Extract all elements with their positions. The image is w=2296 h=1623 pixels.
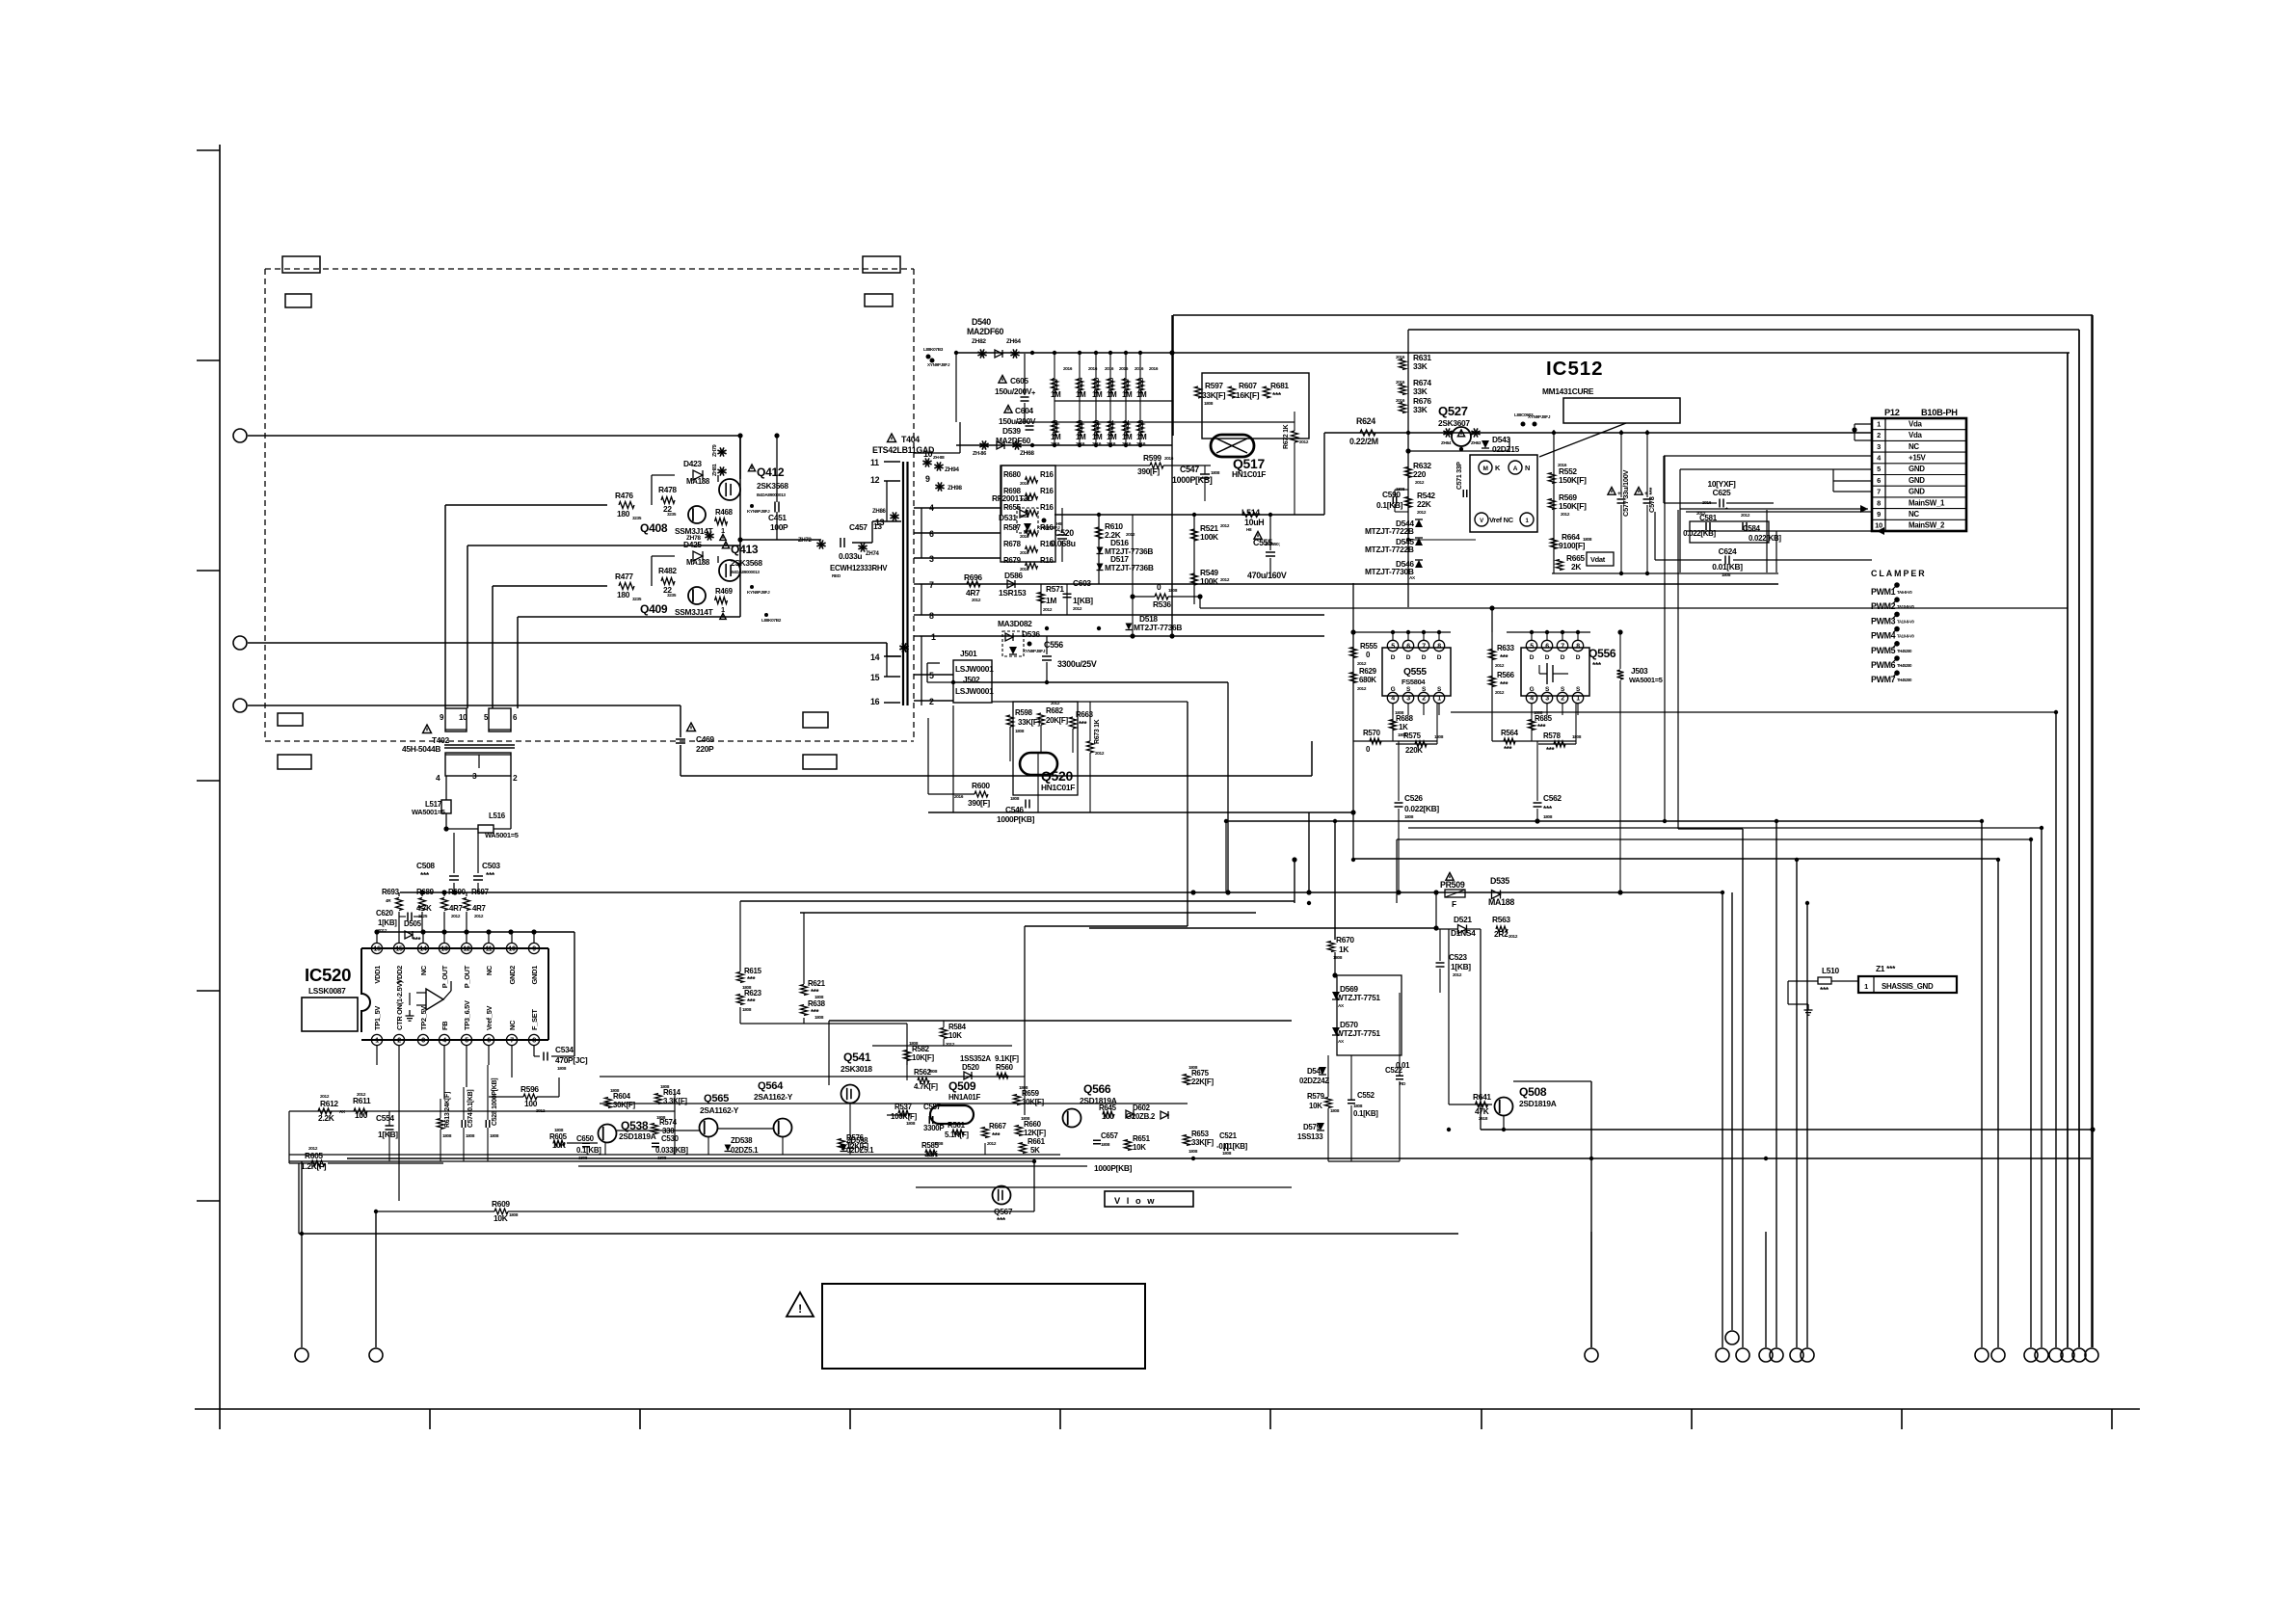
svg-text:1[KB]: 1[KB] — [1073, 596, 1093, 605]
svg-text:4: 4 — [442, 1038, 446, 1045]
svg-text:R482: R482 — [658, 566, 677, 575]
svg-text:1[KB]: 1[KB] — [378, 918, 397, 927]
svg-text:R629: R629 — [1359, 667, 1377, 676]
svg-text:C571 33P: C571 33P — [1456, 462, 1463, 490]
svg-text:C526: C526 — [1404, 793, 1423, 803]
svg-text:2012: 2012 — [1508, 934, 1518, 939]
svg-text:R680: R680 — [1003, 470, 1022, 479]
svg-text:0.01: 0.01 — [1396, 1061, 1410, 1070]
svg-text:1808: 1808 — [934, 1141, 944, 1146]
svg-text:MainSW_1: MainSW_1 — [1909, 498, 1945, 507]
svg-text:R587: R587 — [1003, 523, 1022, 532]
svg-text:C625: C625 — [1713, 488, 1731, 497]
svg-text:G: G — [1391, 686, 1396, 693]
svg-text:3300P: 3300P — [923, 1124, 944, 1132]
svg-text:ECWH12333RHV: ECWH12333RHV — [830, 564, 888, 572]
svg-text:1M: 1M — [1107, 433, 1117, 441]
svg-text:2618: 2618 — [1479, 1116, 1488, 1121]
svg-text:2016: 2016 — [1020, 481, 1029, 486]
svg-text:B4DA89000013: B4DA89000013 — [731, 570, 760, 574]
svg-text:6: 6 — [487, 1038, 491, 1045]
svg-text:1808: 1808 — [1572, 734, 1582, 739]
svg-text:***: *** — [1272, 390, 1282, 400]
svg-text:1M: 1M — [1122, 433, 1133, 441]
svg-text:1808: 1808 — [656, 1115, 666, 1120]
svg-text:1808: 1808 — [909, 1041, 919, 1046]
svg-text:R693: R693 — [382, 888, 400, 896]
svg-text:1808: 1808 — [466, 1133, 475, 1138]
svg-text:12: 12 — [463, 946, 470, 953]
svg-text:R623: R623 — [744, 989, 762, 998]
svg-text:1808: 1808 — [1404, 814, 1414, 819]
svg-text:R667: R667 — [989, 1122, 1007, 1131]
svg-text:PWM2: PWM2 — [1871, 601, 1896, 611]
svg-text:2012: 2012 — [1095, 751, 1105, 756]
svg-text:-0.01[KB]: -0.01[KB] — [1216, 1142, 1248, 1151]
svg-text:1K: 1K — [1339, 945, 1348, 954]
svg-text:13: 13 — [875, 518, 885, 527]
svg-text:R679: R679 — [1003, 556, 1022, 565]
svg-text:2016: 2016 — [1063, 366, 1073, 371]
svg-text:D505: D505 — [404, 919, 422, 928]
svg-text:2012: 2012 — [1417, 510, 1427, 515]
svg-text:11: 11 — [870, 458, 879, 467]
svg-text:2012: 2012 — [1220, 577, 1230, 582]
svg-text:PWM3: PWM3 — [1871, 616, 1896, 625]
svg-text:3: 3 — [1406, 696, 1410, 703]
svg-text:1808: 1808 — [1434, 734, 1444, 739]
svg-text:V l o w: V l o w — [1114, 1196, 1156, 1206]
svg-text:C534: C534 — [555, 1045, 574, 1054]
svg-text:R685: R685 — [1535, 714, 1553, 723]
svg-text:R478: R478 — [658, 485, 677, 494]
svg-text:0.1[KB]: 0.1[KB] — [1376, 500, 1403, 510]
svg-text:0.22/2M: 0.22/2M — [1349, 437, 1378, 446]
svg-text:9: 9 — [925, 474, 930, 484]
svg-text:100K: 100K — [1200, 532, 1218, 542]
svg-text:***: *** — [747, 998, 757, 1006]
svg-text:R469: R469 — [715, 587, 734, 596]
svg-text:D586: D586 — [1004, 571, 1023, 580]
svg-text:16K[F]: 16K[F] — [1236, 390, 1260, 400]
svg-text:3: 3 — [1877, 442, 1881, 451]
svg-text:9.1K[F]: 9.1K[F] — [995, 1054, 1019, 1063]
svg-text:C574 0.1[KB]: C574 0.1[KB] — [467, 1090, 474, 1128]
svg-text:TA10-8-V0: TA10-8-V0 — [1897, 619, 1914, 624]
svg-text:TH45280: TH45280 — [1897, 663, 1912, 668]
svg-text:Vda: Vda — [1909, 431, 1923, 439]
svg-text:ZH78: ZH78 — [686, 535, 701, 542]
svg-text:220: 220 — [1413, 469, 1427, 479]
svg-text:10K: 10K — [1133, 1143, 1146, 1152]
svg-text:33K: 33K — [1413, 386, 1428, 396]
svg-text:2016: 2016 — [1135, 366, 1144, 371]
svg-text:R638: R638 — [808, 999, 826, 1008]
svg-text:4: 4 — [1530, 696, 1534, 703]
svg-text:1[KB]: 1[KB] — [378, 1130, 398, 1139]
svg-text:4: 4 — [436, 773, 441, 783]
svg-text:***: *** — [992, 1131, 1001, 1140]
svg-text:1808: 1808 — [1583, 537, 1592, 542]
svg-text:1: 1 — [1877, 419, 1881, 428]
svg-text:Q555: Q555 — [1403, 667, 1427, 678]
svg-text:1M: 1M — [1051, 390, 1061, 399]
svg-text:PWM6: PWM6 — [1871, 660, 1896, 670]
svg-text:3: 3 — [1545, 696, 1549, 703]
svg-text:2012: 2012 — [1299, 439, 1309, 444]
svg-text:2012: 2012 — [1051, 701, 1060, 705]
svg-text:B4DA89000013: B4DA89000013 — [757, 492, 786, 497]
svg-text:1M: 1M — [1136, 390, 1147, 399]
svg-text:1: 1 — [1437, 696, 1441, 703]
svg-text:2012: 2012 — [474, 914, 484, 918]
svg-text:2016: 2016 — [1119, 366, 1129, 371]
svg-text:NC: NC — [1909, 442, 1919, 451]
svg-text:2SK3568: 2SK3568 — [757, 481, 788, 491]
svg-text:Vda: Vda — [1909, 419, 1923, 428]
svg-text:WA5001=5: WA5001=5 — [1629, 676, 1663, 684]
svg-text:***: *** — [997, 1215, 1006, 1225]
svg-text:XYN9PJ8FJ: XYN9PJ8FJ — [1528, 414, 1551, 419]
svg-text:Q409: Q409 — [640, 602, 668, 616]
svg-text:R571: R571 — [1046, 584, 1064, 594]
svg-text:Q412: Q412 — [757, 466, 785, 479]
svg-text:C604: C604 — [1015, 406, 1033, 415]
svg-text:Q520: Q520 — [1041, 768, 1073, 784]
svg-text:MA188: MA188 — [686, 558, 710, 567]
svg-text:2016: 2016 — [954, 794, 964, 799]
svg-text:V: V — [1480, 519, 1483, 524]
svg-text:R16: R16 — [1040, 487, 1055, 495]
svg-text:R607: R607 — [1239, 381, 1257, 390]
svg-text:R611: R611 — [353, 1096, 371, 1105]
svg-text:CTR ON(1-2.5V): CTR ON(1-2.5V) — [395, 980, 404, 1030]
svg-text:1808: 1808 — [1543, 814, 1553, 819]
svg-text:C520: C520 — [1055, 528, 1074, 538]
svg-text:RED: RED — [832, 573, 841, 578]
svg-text:47K: 47K — [1475, 1106, 1489, 1116]
svg-text:MA2DF60: MA2DF60 — [967, 327, 1004, 336]
svg-text:MT2JT-7736B: MT2JT-7736B — [1134, 623, 1182, 632]
svg-text:1808: 1808 — [509, 1212, 519, 1217]
svg-text:NC: NC — [1909, 510, 1919, 519]
svg-text:2012: 2012 — [1561, 512, 1570, 517]
svg-text:D: D — [1437, 654, 1442, 661]
svg-text:C620: C620 — [376, 909, 394, 918]
svg-text:2012: 2012 — [987, 1141, 997, 1146]
svg-text:02DZ5.1: 02DZ5.1 — [731, 1146, 759, 1155]
svg-text:NC: NC — [508, 1020, 517, 1030]
svg-text:R688: R688 — [1396, 714, 1414, 723]
svg-text:ZH74: ZH74 — [866, 551, 879, 557]
svg-text:8: 8 — [1576, 644, 1580, 651]
svg-text:2: 2 — [397, 1038, 401, 1045]
svg-text:F_SET: F_SET — [530, 1009, 539, 1030]
svg-text:B10B-PH: B10B-PH — [1921, 408, 1958, 417]
svg-text:D521: D521 — [1454, 915, 1472, 924]
svg-text:1808: 1808 — [1188, 1065, 1198, 1070]
svg-text:1M: 1M — [1092, 390, 1103, 399]
svg-text:1M: 1M — [1107, 390, 1117, 399]
svg-text:0.022[KB]: 0.022[KB] — [1404, 804, 1439, 813]
svg-text:R599: R599 — [1143, 453, 1161, 463]
svg-text:IC520: IC520 — [305, 965, 351, 985]
svg-text:3235: 3235 — [632, 516, 642, 520]
svg-text:180: 180 — [617, 509, 630, 519]
svg-text:ZH72: ZH72 — [798, 538, 812, 544]
svg-text:KYN9PJ8FJ: KYN9PJ8FJ — [747, 590, 770, 595]
svg-text:10: 10 — [508, 946, 516, 953]
svg-text:R675: R675 — [1191, 1069, 1210, 1078]
svg-text:9100[F]: 9100[F] — [1559, 541, 1586, 550]
svg-text:1808: 1808 — [490, 1133, 499, 1138]
svg-text:2016: 2016 — [1149, 366, 1159, 371]
svg-text:R563: R563 — [1492, 915, 1510, 924]
svg-text:1M: 1M — [1051, 433, 1061, 441]
svg-text:Q565: Q565 — [704, 1093, 729, 1104]
svg-text:C503: C503 — [482, 861, 500, 870]
svg-text:220K: 220K — [1405, 746, 1423, 755]
svg-text:PWM7: PWM7 — [1871, 675, 1896, 684]
svg-text:R561: R561 — [948, 1121, 966, 1130]
svg-text:D: D — [1422, 654, 1427, 661]
svg-text:Q413: Q413 — [731, 543, 759, 556]
svg-text:2SA1162-Y: 2SA1162-Y — [754, 1092, 793, 1102]
svg-text:GND: GND — [1909, 476, 1925, 485]
svg-text:HN1C01F: HN1C01F — [1041, 783, 1075, 792]
svg-text:TP1_5V: TP1_5V — [373, 1006, 382, 1030]
svg-text:TP3_6.5V: TP3_6.5V — [463, 1000, 471, 1030]
svg-text:SHASSIS_GND: SHASSIS_GND — [1882, 982, 1934, 991]
svg-text:11: 11 — [486, 946, 493, 953]
svg-text:ZH82: ZH82 — [972, 338, 986, 345]
svg-text:5: 5 — [1530, 644, 1534, 651]
svg-text:J503: J503 — [1631, 666, 1648, 676]
svg-text:2SK3607: 2SK3607 — [1438, 418, 1470, 428]
svg-text:2012: 2012 — [1073, 606, 1082, 611]
svg-text:R564: R564 — [1501, 729, 1519, 737]
svg-text:ZH64: ZH64 — [1006, 338, 1021, 345]
svg-text:***: *** — [1543, 804, 1553, 813]
svg-text:16: 16 — [870, 697, 880, 706]
svg-text:10uH: 10uH — [1244, 518, 1264, 527]
svg-text:2012: 2012 — [1220, 523, 1230, 528]
svg-text:R670: R670 — [1336, 935, 1354, 945]
svg-text:Q564: Q564 — [758, 1080, 784, 1092]
svg-text:10K: 10K — [1309, 1102, 1322, 1110]
svg-text:4: 4 — [1391, 696, 1395, 703]
svg-text:***: *** — [1500, 680, 1509, 689]
svg-text:Q541: Q541 — [843, 1051, 871, 1064]
svg-text:2SD1819A: 2SD1819A — [1519, 1099, 1557, 1108]
svg-text:2012: 2012 — [451, 914, 461, 918]
svg-text:10K: 10K — [494, 1213, 508, 1223]
svg-text:3: 3 — [421, 1038, 425, 1045]
svg-text:RF2001T3D: RF2001T3D — [992, 493, 1033, 503]
svg-text:220P: 220P — [696, 744, 714, 754]
svg-text:PWM5: PWM5 — [1871, 646, 1896, 655]
svg-text:ZH81: ZH81 — [712, 464, 718, 476]
svg-text:12K[F]: 12K[F] — [1024, 1129, 1046, 1137]
svg-text:0.022[KB]: 0.022[KB] — [1683, 529, 1716, 538]
svg-text:ZH68: ZH68 — [1020, 450, 1034, 457]
svg-text:1808: 1808 — [1101, 1142, 1110, 1147]
svg-text:P12: P12 — [1884, 408, 1900, 417]
svg-text:R576: R576 — [846, 1133, 865, 1142]
svg-text:C650: C650 — [576, 1134, 595, 1143]
svg-text:R663: R663 — [1076, 710, 1094, 719]
svg-text:Q408: Q408 — [640, 521, 668, 535]
svg-text:HN1A01F: HN1A01F — [948, 1093, 981, 1102]
svg-text:R600: R600 — [972, 781, 990, 790]
svg-text:1SS133: 1SS133 — [1297, 1132, 1323, 1141]
svg-text:1000P[KB]: 1000P[KB] — [1172, 475, 1213, 485]
svg-text:***: *** — [1537, 723, 1547, 732]
svg-text:D: D — [1530, 654, 1535, 661]
svg-text:02DZ15: 02DZ15 — [1492, 444, 1520, 454]
svg-text:10K[F]: 10K[F] — [912, 1053, 934, 1062]
svg-text:1SS352A: 1SS352A — [960, 1054, 991, 1063]
svg-text:7: 7 — [1561, 644, 1564, 651]
svg-text:MA188: MA188 — [686, 477, 710, 486]
svg-text:L516: L516 — [489, 811, 506, 820]
svg-text:***: *** — [747, 975, 757, 984]
svg-text:3235: 3235 — [667, 512, 677, 517]
svg-text:1: 1 — [931, 632, 936, 642]
svg-text:2012: 2012 — [1357, 661, 1367, 666]
svg-text:1: 1 — [375, 1038, 379, 1045]
svg-text:PR509: PR509 — [1440, 880, 1465, 890]
svg-text:KYN9PJ8FJ: KYN9PJ8FJ — [747, 509, 770, 514]
svg-text:GND: GND — [1909, 465, 1925, 473]
svg-text:R621: R621 — [808, 979, 826, 988]
svg-text:T404: T404 — [901, 435, 920, 444]
svg-text:Vref NC: Vref NC — [1489, 516, 1514, 524]
svg-text:R653: R653 — [1191, 1130, 1210, 1138]
svg-text:3300u/25V: 3300u/25V — [1057, 659, 1097, 669]
svg-text:1808: 1808 — [1222, 1151, 1232, 1156]
svg-text:0.1[KB]: 0.1[KB] — [576, 1146, 601, 1155]
svg-text:0.033[KB]: 0.033[KB] — [655, 1146, 688, 1155]
svg-text:2: 2 — [929, 697, 934, 706]
svg-text:VDD1: VDD1 — [373, 966, 382, 984]
svg-text:2K: 2K — [1571, 562, 1581, 572]
svg-text:180: 180 — [617, 590, 630, 599]
svg-text:4R: 4R — [386, 898, 391, 903]
svg-text:R615: R615 — [744, 967, 762, 975]
svg-text:***: *** — [1546, 746, 1556, 755]
svg-text:1808: 1808 — [554, 1128, 564, 1132]
svg-text:C554: C554 — [376, 1113, 394, 1123]
svg-text:R560: R560 — [996, 1063, 1014, 1072]
svg-text:2016: 2016 — [1020, 534, 1029, 539]
svg-text:10: 10 — [1875, 521, 1882, 530]
svg-text:NC: NC — [485, 965, 494, 975]
svg-text:WTZJT-7751: WTZJT-7751 — [1336, 993, 1380, 1002]
svg-text:2012: 2012 — [1495, 663, 1505, 668]
svg-text:7: 7 — [1877, 488, 1881, 496]
svg-text:3: 3 — [929, 554, 934, 564]
svg-text:PWM1: PWM1 — [1871, 587, 1896, 597]
svg-text:16: 16 — [373, 946, 381, 953]
svg-text:R604: R604 — [613, 1092, 631, 1101]
svg-text:D536: D536 — [1022, 629, 1040, 639]
svg-text:1K: 1K — [1399, 723, 1408, 732]
svg-text:7: 7 — [1422, 644, 1426, 651]
svg-text:ZH-88: ZH-88 — [933, 455, 945, 460]
svg-text:1808: 1808 — [928, 1069, 938, 1074]
svg-text:D: D — [1561, 654, 1565, 661]
svg-text:9: 9 — [1877, 510, 1881, 519]
svg-text:1808: 1808 — [1019, 1085, 1028, 1090]
svg-text:ZH86: ZH86 — [872, 509, 886, 515]
svg-text:ZH79: ZH79 — [712, 444, 718, 457]
svg-text:2SD1819A: 2SD1819A — [619, 1131, 656, 1141]
svg-text:2016: 2016 — [1396, 398, 1405, 403]
svg-text:R661: R661 — [1028, 1137, 1046, 1146]
svg-text:33K: 33K — [1413, 405, 1428, 414]
svg-text:R660: R660 — [1024, 1120, 1042, 1129]
svg-text:1M: 1M — [1092, 433, 1103, 441]
svg-text:PWM4: PWM4 — [1871, 631, 1896, 641]
svg-text:2012: 2012 — [1495, 690, 1505, 695]
svg-text:2012: 2012 — [1415, 480, 1425, 485]
svg-text:1808: 1808 — [1722, 572, 1731, 577]
svg-text:Q566: Q566 — [1083, 1082, 1111, 1096]
svg-text:0.033u: 0.033u — [839, 551, 862, 561]
svg-text:3235: 3235 — [632, 597, 642, 601]
svg-text:R584: R584 — [948, 1023, 967, 1031]
svg-text:1SR153: 1SR153 — [999, 588, 1027, 598]
svg-text:Vref_5V: Vref_5V — [485, 1005, 494, 1030]
svg-text:1808: 1808 — [1021, 1116, 1030, 1121]
svg-text:D: D — [1576, 654, 1581, 661]
svg-text:1808: 1808 — [1330, 1108, 1340, 1113]
svg-text:1808: 1808 — [610, 1088, 620, 1093]
svg-text:SSM3J14T: SSM3J14T — [675, 607, 714, 617]
svg-text:C457: C457 — [849, 522, 868, 532]
svg-text:33K[F]: 33K[F] — [1202, 390, 1226, 400]
svg-text:&#9650;: &#9650; — [1265, 542, 1280, 546]
svg-text:C584: C584 — [1743, 524, 1761, 533]
svg-text:4.7K[F]: 4.7K[F] — [914, 1082, 938, 1091]
svg-text:R476: R476 — [615, 491, 633, 500]
svg-text:D: D — [1545, 654, 1550, 661]
svg-text:2SA1162-Y: 2SA1162-Y — [700, 1105, 739, 1115]
svg-text:C521: C521 — [1219, 1131, 1238, 1140]
svg-text:6: 6 — [929, 529, 934, 539]
svg-text:2016: 2016 — [1396, 380, 1405, 385]
svg-text:22K[F]: 22K[F] — [1191, 1078, 1214, 1086]
svg-text:6: 6 — [1545, 644, 1549, 651]
svg-text:1808: 1808 — [442, 1133, 452, 1138]
svg-text:1: 1 — [1864, 982, 1868, 991]
svg-text:R651: R651 — [1133, 1134, 1151, 1143]
svg-text:MA188: MA188 — [1488, 897, 1514, 907]
svg-text:L88K07B3: L88K07B3 — [923, 347, 944, 352]
svg-text:R681: R681 — [1270, 381, 1289, 390]
svg-text:13: 13 — [441, 946, 448, 953]
svg-text:30K[F]: 30K[F] — [613, 1101, 635, 1109]
svg-text:ZH98: ZH98 — [948, 485, 962, 492]
svg-text:LSJW0001: LSJW0001 — [955, 686, 994, 696]
svg-text:2016: 2016 — [1105, 366, 1114, 371]
svg-text:***: *** — [1079, 720, 1088, 729]
svg-text:R566: R566 — [1497, 671, 1515, 679]
svg-text:HN1C01F: HN1C01F — [1232, 469, 1266, 479]
svg-text:100P: 100P — [770, 522, 788, 532]
svg-text:4R7: 4R7 — [472, 904, 487, 913]
